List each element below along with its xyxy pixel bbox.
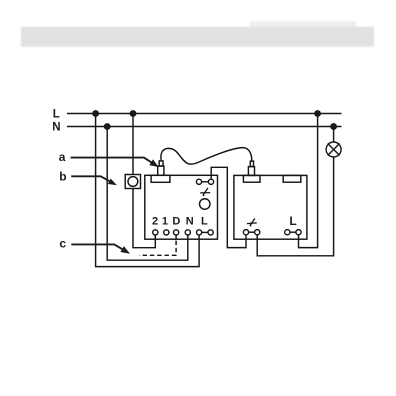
- wire relay contact to right device input: [211, 167, 246, 247]
- left device antenna stub base: [158, 166, 164, 175]
- left device top tab: [151, 175, 170, 182]
- left device relay contact circles: [196, 179, 213, 184]
- left device switch-output symbol: [200, 188, 210, 195]
- leader arrow b: [71, 176, 115, 184]
- labels: [52, 109, 296, 251]
- dashed wire from terminal D (extension input): [139, 241, 176, 256]
- svg-text:D: D: [172, 216, 180, 228]
- right device top tab left: [243, 175, 260, 182]
- arrows a,b,c: [71, 158, 158, 253]
- svg-text:L: L: [53, 109, 60, 121]
- right device U2 box: [234, 175, 307, 239]
- curved cord between device stubs: [161, 148, 252, 165]
- top toolbar highlight patch: [250, 21, 356, 28]
- wire L supply line: [67, 113, 342, 115]
- junction on L at x=317.6: [315, 111, 320, 116]
- left device terminal 1: [164, 230, 169, 235]
- junction on N at x=333.6: [331, 124, 336, 129]
- svg-text:1: 1: [162, 216, 168, 228]
- svg-text:N: N: [186, 216, 194, 228]
- svg-text:2: 2: [152, 216, 158, 228]
- wire N dot to lamp: [333, 127, 335, 143]
- svg-text:L: L: [201, 216, 208, 228]
- left device dial circle: [200, 199, 211, 210]
- push-button S1 circle: [128, 177, 138, 187]
- right device antenna stub tip: [250, 161, 253, 167]
- right device L terminal pair: [285, 230, 301, 235]
- wire L dot down to terminal L: [96, 114, 200, 267]
- right device switch-output symbol: [247, 218, 257, 225]
- wire N dot down to terminal N: [107, 127, 188, 261]
- lamp E1: [326, 142, 341, 157]
- wire L dot down to right device L terminal: [299, 114, 318, 248]
- junction on N at x=107.2: [105, 124, 110, 129]
- left device terminal L pair: [197, 230, 214, 235]
- wire from L dot down to push-button: [132, 114, 134, 175]
- wire N supply line: [67, 126, 342, 128]
- top toolbar gray bar: [21, 27, 374, 47]
- svg-text:a: a: [59, 150, 66, 164]
- left device antenna stub tip: [159, 161, 163, 166]
- leader arrow c: [71, 244, 129, 253]
- svg-text:N: N: [52, 121, 60, 133]
- left device terminal 2: [153, 230, 158, 235]
- junction on L at x=133: [130, 111, 135, 116]
- left device terminal D: [174, 230, 179, 235]
- push-button S1 square: [125, 175, 140, 189]
- svg-text:b: b: [59, 170, 66, 184]
- terminal D solid stub: [175, 235, 177, 241]
- svg-text:L: L: [289, 214, 296, 228]
- right device top tab right: [283, 175, 301, 182]
- junction on L at x=95: [93, 111, 98, 116]
- right device switched terminal pair: [243, 230, 259, 235]
- right device antenna stub base: [248, 167, 254, 176]
- wire lamp to right device switched terminal: [257, 157, 333, 256]
- svg-text:c: c: [59, 237, 66, 251]
- left device terminal N: [185, 230, 190, 235]
- left device U1 box: [145, 175, 218, 239]
- leader arrow a: [71, 158, 158, 167]
- wire push-button to terminal 2: [133, 189, 155, 248]
